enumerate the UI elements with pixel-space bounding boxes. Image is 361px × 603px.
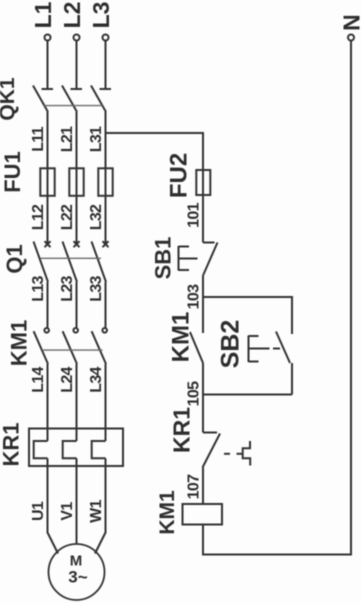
wire [76,364,78,441]
svg-text:L32: L32 [88,204,105,230]
wire [105,41,107,89]
wire [202,276,204,298]
wire [76,41,78,89]
svg-text:SB2: SB2 [217,320,245,369]
breaker Q1 [2,241,109,282]
svg-text:L22: L22 [59,204,76,230]
svg-text:N: N [339,14,361,31]
svg-text:U1: U1 [30,501,47,521]
svg-text:L2: L2 [59,2,85,29]
fuse FU2 [166,153,211,198]
svg-text:V1: V1 [59,502,76,521]
pushbutton SB1 (NC stop) [151,237,218,280]
terminal L3 [103,35,109,41]
wire SB2 branch return [203,394,292,396]
wire [105,282,107,328]
switch QK1 [0,77,111,121]
svg-text:FU1: FU1 [0,151,25,193]
svg-text:L3: L3 [88,2,114,29]
svg-text:L13: L13 [30,275,47,301]
contactor KM1 main contacts [7,320,107,366]
wire [105,458,107,533]
svg-text:KM1: KM1 [7,320,32,366]
wire [105,364,107,441]
wire [48,533,59,554]
wire branch to SB2 [203,297,292,334]
terminal N [348,35,354,41]
svg-text:L23: L23 [59,275,76,301]
wire [47,364,49,441]
svg-text:L33: L33 [88,275,105,301]
svg-text:105: 105 [186,381,203,406]
svg-text:L24: L24 [59,366,76,392]
contact KM1 auxiliary (self hold) [168,297,204,363]
contact KR1 (NC overload trip) [169,407,251,468]
wire tap to control circuit [106,133,204,243]
svg-text:KM1: KM1 [168,312,195,363]
thermal relay KR1 heaters [0,422,123,466]
motor M 3~ [49,544,105,600]
coil KM1 [156,490,222,535]
svg-text:L31: L31 [88,126,105,152]
fuse FU1 [0,151,113,196]
svg-text:SB1: SB1 [151,237,176,280]
svg-text:L12: L12 [30,204,47,230]
svg-text:107: 107 [186,474,203,499]
svg-text:KR1: KR1 [169,407,195,453]
svg-text:L34: L34 [88,366,105,392]
wire [47,458,49,533]
svg-text:KM1: KM1 [156,490,179,535]
wire [47,282,49,328]
svg-text:L11: L11 [30,126,47,151]
svg-text:QK1: QK1 [0,77,19,121]
wire [47,112,49,243]
wire [203,41,351,555]
svg-text:L1: L1 [30,1,56,28]
pushbutton SB2 (NO start) [217,320,291,369]
terminal L1 [45,35,51,41]
svg-text:103: 103 [186,284,203,309]
svg-text:L14: L14 [30,366,47,392]
svg-text:3~: 3~ [68,568,87,587]
svg-text:KR1: KR1 [0,422,24,466]
svg-text:FU2: FU2 [166,153,193,198]
terminal L2 [74,35,80,41]
svg-text:L21: L21 [59,126,76,152]
svg-text:Q1: Q1 [2,244,27,273]
wire [76,282,78,328]
wire [105,112,107,243]
wire [291,363,293,395]
svg-text:101: 101 [186,202,203,227]
wire [76,112,78,243]
svg-text:W1: W1 [88,499,105,522]
wire [202,468,204,505]
wire [47,41,49,89]
wire [95,533,106,554]
wire [202,363,204,433]
wire [76,458,78,544]
